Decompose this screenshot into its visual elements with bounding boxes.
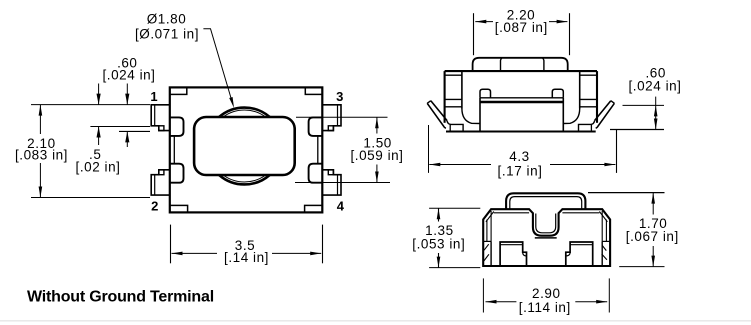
inner contact tab left-bottom (170, 164, 184, 183)
top inner edge lines (486, 212, 608, 222)
svg-text:[.14 in]: [.14 in] (224, 250, 269, 265)
dimension 2.20 (horizontal, above side view) (475, 8, 567, 35)
pin 2 label (151, 198, 158, 213)
svg-text:[.053 in]: [.053 in] (412, 237, 465, 252)
terminal pad 2 (bottom-left) (151, 170, 170, 195)
inner connect line right (317, 136, 319, 164)
side base block (480, 98, 563, 132)
inner connect line left (173, 136, 175, 164)
svg-text:2: 2 (151, 198, 158, 213)
bottom terminal slot left (500, 242, 526, 266)
lead cross-section right (hatched) (602, 241, 611, 266)
side contact post right (552, 89, 563, 98)
dimension diameter 1.80 label and leader (135, 12, 234, 108)
front button inner (510, 197, 582, 210)
terminal pad 4 (bottom-right) (322, 170, 341, 195)
corner notch top-right (305, 87, 322, 94)
svg-text:1: 1 (150, 89, 157, 104)
svg-text:[.17 in]: [.17 in] (498, 163, 543, 178)
svg-text:2.90: 2.90 (532, 286, 560, 301)
svg-text:4: 4 (337, 198, 345, 213)
extension lines 1.35 (429, 208, 480, 267)
footer separator line (0, 320, 751, 322)
dimension .60 (vertical, right of side view) (629, 66, 682, 130)
corner notch top-left (170, 87, 187, 94)
dimension 2.90 (horizontal, below front view) (486, 286, 608, 315)
svg-text:[.02 in]: [.02 in] (76, 160, 121, 175)
inner contact tab left-top (170, 117, 184, 135)
side wall left (inner lines) (445, 71, 480, 123)
svg-text:4.3: 4.3 (509, 149, 529, 164)
svg-text:[.087 in]: [.087 in] (495, 20, 548, 35)
dimension 1.50 (vertical, right) (351, 117, 404, 182)
switch body outline (top view) (170, 87, 322, 212)
terminal pad 3 (top-right) (322, 105, 341, 131)
side wall inner verticals (487, 211, 607, 241)
terminal pad 1 (top-left) (151, 105, 170, 131)
svg-text:Without Ground Terminal: Without Ground Terminal (27, 289, 214, 306)
side body outline (445, 71, 597, 131)
pin 1 label (150, 89, 157, 104)
svg-text:[.024 in]: [.024 in] (629, 79, 682, 94)
svg-text:[.083 in]: [.083 in] (15, 147, 68, 162)
svg-text:[.024 in]: [.024 in] (103, 67, 156, 82)
extension line pad1 bottom (.5) (90, 126, 150, 128)
corner notch bottom-left (170, 205, 188, 212)
witness lines 2.20 (474, 13, 570, 55)
svg-text:Ø1.80: Ø1.80 (147, 12, 187, 27)
side button (three segments) (473, 58, 568, 71)
svg-text:[.067 in]: [.067 in] (626, 229, 679, 244)
witness lines 4.3 (429, 125, 617, 173)
dimension 1.35 (vertical, left of front view) (412, 208, 465, 267)
bottom terminal slot right (566, 242, 593, 266)
pin 4 label (337, 198, 345, 213)
svg-text:[.114 in]: [.114 in] (519, 300, 571, 315)
witness lines 2.90 (483, 278, 609, 312)
dimension 1.70 (vertical, right of front view) (626, 193, 679, 267)
extension line button top (1.50) (296, 116, 388, 118)
shaft inner line and base line (535, 214, 557, 238)
inner contact tab right-top (309, 117, 323, 135)
button bottom arc (dome edge) (219, 175, 270, 184)
extension line pad2 bottom (2.10) (31, 197, 150, 199)
caption: Without Ground Terminal (27, 289, 214, 306)
dimension 3.5 (horizontal, bottom of top view) (172, 238, 322, 265)
svg-text:[.059 in]: [.059 in] (351, 148, 404, 163)
lead cross-section left (hatched) (483, 241, 491, 266)
extension line pad1 top (shared 2.10/.60/.5) (31, 104, 150, 106)
dimension 2.10 (vertical, left) (15, 105, 68, 198)
dimension .60 pad height (labels + arrows) (103, 56, 156, 147)
front button outer (506, 193, 585, 209)
extension lines 1.70 (588, 193, 665, 267)
svg-text:3: 3 (336, 89, 343, 104)
extension line button bottom (1.50) (295, 182, 390, 184)
button top arc (dome edge) (219, 108, 270, 117)
side wall right (inner lines) (563, 71, 597, 123)
front body outline with chamfers and button shaft slot (483, 209, 610, 266)
svg-text:[Ø.071 in]: [Ø.071 in] (135, 27, 199, 42)
gull-wing lead right (579, 101, 615, 132)
dimension .5 pad height (labels + arrows) (76, 84, 121, 175)
witness lines 3.5 (171, 225, 323, 264)
actuator button outline (rounded square) (194, 117, 295, 175)
corner notch bottom-right (305, 205, 323, 212)
extension line pad1 step bottom (.60) (119, 130, 150, 132)
inner contact tab right-bottom (309, 164, 323, 183)
side contact post left (480, 89, 491, 98)
pin 3 label (336, 89, 343, 104)
gull-wing lead left (427, 101, 463, 132)
dimension 4.3 (horizontal, below side view) (429, 149, 615, 178)
extension lines .60 lead height (610, 105, 664, 129)
